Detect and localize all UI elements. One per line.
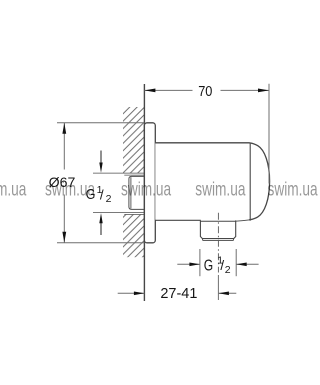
flange (144, 123, 155, 243)
dim 70 right extension (268, 84, 270, 184)
watermark band (0, 178, 318, 200)
dim 27-41 right arrow (218, 292, 236, 294)
outlet centerline (217, 213, 219, 273)
svg-text:G: G (204, 257, 213, 274)
svg-text:27-41: 27-41 (160, 286, 197, 302)
label G half left top arrow (100, 151, 102, 167)
cap seam (249, 144, 251, 221)
inlet thread fitting (129, 176, 145, 209)
dim O67 bottom arrow (62, 232, 66, 243)
nipple top edge (200, 220, 235, 222)
dim G half bottom text (204, 254, 231, 275)
svg-text:swim.ua: swim.ua (45, 178, 96, 200)
dim G half bottom extensions (199, 249, 201, 276)
svg-text:swim.ua: swim.ua (0, 178, 27, 200)
dim G half bottom right arrow (236, 263, 258, 265)
dim 70 right arrow (258, 89, 269, 93)
svg-text:70: 70 (198, 83, 212, 100)
svg-text:swim.ua: swim.ua (195, 178, 246, 200)
nipple thread end line (202, 239, 234, 241)
dim 70 left arrow (144, 89, 155, 93)
dim O67 line (63, 123, 65, 170)
svg-text:2: 2 (225, 264, 231, 276)
inlet gap bottom lines (93, 212, 144, 214)
dim O67 extension bottom (57, 242, 144, 244)
label G half left text (86, 184, 112, 205)
nipple right shoulder (236, 220, 249, 221)
wall hatch upper (123, 107, 144, 173)
dim 70 line (144, 89, 192, 91)
svg-text:swim.ua: swim.ua (121, 178, 172, 200)
wall hatch lower (123, 214, 144, 257)
dim G half bottom left arrow (177, 263, 200, 265)
svg-text:/: / (100, 188, 104, 203)
svg-text:swim.ua: swim.ua (268, 178, 319, 200)
dim O67 top arrow (62, 123, 66, 134)
body bottom line (155, 219, 201, 221)
svg-text:2: 2 (106, 193, 112, 205)
dim 27-41 right extension (217, 275, 219, 300)
outlet nipple (200, 220, 235, 238)
inlet gap top lines (93, 172, 144, 174)
dim O67 extension top (57, 122, 144, 124)
body fill (155, 143, 269, 220)
wall face line (143, 84, 145, 301)
dim 27-41 left arrow (118, 292, 145, 294)
label G half left bottom arrow (100, 220, 102, 235)
body top outline and dome (155, 143, 269, 220)
